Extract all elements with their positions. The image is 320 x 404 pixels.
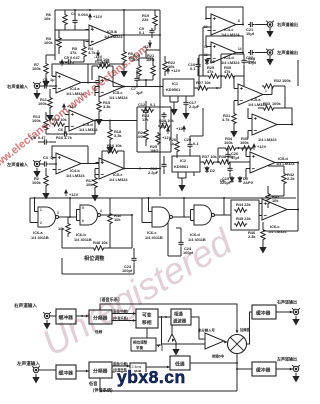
node top bus junctions (74, 9, 76, 11)
op-amp IC4-d (208, 42, 240, 63)
svg-text:100k: 100k (38, 101, 47, 106)
svg-text:1: 1 (40, 208, 42, 212)
svg-text:缓冲器: 缓冲器 (59, 370, 74, 377)
wire opamp5-6 (88, 164, 99, 177)
ground (43, 190, 49, 199)
ground (34, 90, 40, 99)
svg-text:1μF: 1μF (136, 90, 144, 95)
wire (76, 315, 89, 317)
svg-text:右声道输出: 右声道输出 (276, 299, 297, 305)
wire nand3 in (142, 198, 149, 223)
svg-text:2.3k: 2.3k (248, 234, 256, 239)
capacitor C13 (161, 112, 166, 119)
wire divider top to mixer column (100, 304, 237, 332)
resistor R25 (156, 132, 160, 145)
ground (231, 128, 237, 137)
svg-text:右声道输入: 右声道输入 (14, 302, 37, 309)
resistor R10 feedback (96, 64, 109, 68)
box bandpass (171, 309, 191, 325)
svg-text:低音: 低音 (88, 380, 98, 387)
box buffer L (56, 365, 76, 379)
resistor R22 (163, 60, 167, 73)
svg-text:+12V: +12V (67, 104, 77, 109)
resistor R46 (261, 228, 265, 241)
wire left rail (54, 10, 56, 60)
svg-text:100k: 100k (224, 140, 233, 145)
box delay (130, 363, 146, 375)
resistor R15 (97, 100, 101, 113)
resistor R38 (218, 160, 231, 164)
svg-text:47μf: 47μf (248, 60, 257, 65)
svg-text:右声道输出: 右声道输出 (277, 21, 298, 28)
resistor R6 (63, 13, 67, 26)
svg-text:语音(中频): 语音(中频) (113, 309, 128, 314)
wire nand1-2 (62, 198, 81, 221)
ground (260, 244, 266, 253)
box buffer out L (252, 362, 276, 376)
svg-text:1/4 LM324: 1/4 LM324 (276, 161, 295, 166)
wire opamp6 out (124, 168, 160, 170)
op-amp IC5-d2 (247, 152, 279, 173)
svg-text:1/4 4011B: 1/4 4011B (74, 237, 92, 242)
wire feedback IC4-d (206, 36, 243, 53)
wire (76, 370, 89, 372)
svg-text:C20: C20 (184, 137, 191, 142)
svg-text:缓冲器: 缓冲器 (256, 367, 271, 374)
svg-text:3: 3 (91, 26, 93, 30)
svg-text:1/4 4011B: 1/4 4011B (188, 237, 206, 242)
op-amp IC5-b (249, 114, 281, 135)
svg-text:KD9561: KD9561 (174, 164, 189, 169)
wire (158, 316, 171, 318)
box variable phase (136, 309, 158, 328)
wire right bus (268, 60, 298, 231)
wire nand3-4 (176, 198, 195, 221)
box R44 R45 (231, 200, 259, 230)
resistor R2 (44, 174, 48, 187)
resistor R7 (44, 62, 48, 75)
svg-text:1/4 LM324: 1/4 LM324 (109, 95, 128, 100)
power +12V (63, 104, 66, 110)
resistor R24 (144, 128, 148, 141)
power +12V (167, 128, 170, 134)
box buffer R (56, 309, 76, 324)
svg-text:10μf: 10μf (246, 31, 255, 36)
svg-text:缓冲器: 缓冲器 (59, 314, 74, 321)
IC2 box KD9561 (172, 156, 200, 172)
mixer (228, 335, 247, 354)
diode D1 (205, 58, 209, 65)
svg-text:10k: 10k (114, 217, 121, 222)
wire opamp3 out (124, 86, 160, 88)
capacitor C17 (183, 100, 188, 107)
diode D6 (230, 176, 234, 183)
svg-text:2AP9: 2AP9 (243, 180, 254, 185)
resistor R5 (82, 45, 86, 58)
svg-text:相位调整: 相位调整 (133, 340, 148, 345)
op-amp IC2-a (96, 76, 128, 97)
resistor R3 (57, 36, 61, 49)
wire divider L bottom feedback (100, 378, 237, 391)
ground (33, 374, 39, 383)
ground (107, 144, 113, 153)
svg-text:1/4 LM324: 1/4 LM324 (79, 127, 98, 132)
svg-text:可变: 可变 (142, 312, 152, 319)
capacitor C20 (187, 142, 192, 149)
svg-text:移相: 移相 (142, 319, 152, 326)
svg-text:相通: 相通 (174, 311, 183, 318)
resistor R34 (224, 146, 237, 150)
svg-text:分频器: 分频器 (93, 315, 108, 322)
wire branch down to summing (162, 317, 206, 344)
wire row3 (190, 108, 250, 162)
capacitor C21 (248, 22, 255, 27)
capacitor C24 (178, 240, 183, 247)
svg-text:R32: R32 (274, 78, 282, 83)
power -12V (97, 50, 100, 56)
nand IC3-a (35, 207, 63, 227)
op-amp IC1-a (53, 72, 85, 93)
svg-text:右声道输入: 右声道输入 (7, 83, 29, 90)
op-amp IC1-1 (86, 25, 118, 46)
svg-text:1/4 LM324: 1/4 LM324 (66, 91, 85, 96)
jack bd input R (43, 312, 51, 319)
svg-text:KD9561: KD9561 (166, 87, 181, 92)
wire feedback opamp2 (52, 64, 88, 83)
svg-text:1/4 LM324: 1/4 LM324 (66, 173, 85, 178)
wire feedback IC4-c (206, 7, 243, 25)
svg-text:100k: 100k (32, 66, 41, 71)
svg-text:47μf: 47μf (231, 155, 240, 160)
svg-text:分频器: 分频器 (93, 368, 108, 375)
svg-text:0.094: 0.094 (78, 12, 89, 17)
capacitor C8 (42, 139, 49, 144)
resistor R19 (153, 14, 157, 27)
capacitor C16 (161, 162, 166, 169)
wire opamp1 out (114, 10, 160, 35)
svg-text:2.2μF: 2.2μF (148, 170, 159, 175)
box divider L (89, 362, 112, 378)
svg-text:R14 10k: R14 10k (52, 117, 68, 122)
ground (293, 373, 299, 382)
capacitor C18 (241, 58, 246, 65)
power +12V (167, 68, 170, 74)
svg-text:0.1: 0.1 (139, 30, 145, 35)
wire arrows to phase box (112, 314, 136, 321)
capacitor C6 (62, 131, 69, 136)
svg-text:3.3k: 3.3k (114, 133, 122, 138)
svg-text:100k: 100k (32, 180, 41, 185)
power +12V (183, 126, 186, 132)
wire opamp2-3 (88, 83, 99, 97)
resistor R16 (106, 149, 119, 153)
wire IC5a (234, 76, 272, 113)
svg-text:22k: 22k (142, 17, 149, 22)
svg-text:左声道输入: 左声道输入 (16, 360, 40, 367)
svg-text:0.1: 0.1 (190, 66, 196, 71)
svg-text:缓冲器: 缓冲器 (256, 310, 271, 317)
svg-text:相位调整: 相位调整 (84, 255, 105, 262)
resistor R13 (44, 118, 48, 131)
jack output L (266, 49, 274, 56)
nand IC3-b (77, 205, 105, 225)
svg-text:-12V: -12V (143, 44, 152, 49)
wire (39, 369, 56, 371)
wire (146, 366, 170, 368)
svg-text:C1: C1 (43, 77, 49, 82)
svg-text:R12 10k: R12 10k (95, 59, 111, 64)
svg-text:C3: C3 (43, 155, 49, 160)
ground (44, 320, 50, 329)
wire arrows to delay (112, 366, 130, 372)
wire (50, 315, 56, 317)
svg-text:1: 1 (115, 30, 117, 34)
svg-text:C8: C8 (31, 135, 37, 140)
svg-text:2: 2 (91, 40, 93, 44)
wire right link (263, 230, 298, 232)
box buffer out R (252, 305, 276, 319)
svg-text:C12: C12 (138, 102, 146, 107)
svg-text:100pf: 100pf (183, 250, 194, 255)
resistor R45 (234, 222, 247, 226)
svg-text:C4: C4 (71, 11, 77, 16)
wire phase box (62, 228, 134, 274)
svg-text:IC1: IC1 (172, 81, 179, 86)
capacitor C1 (42, 83, 49, 88)
ground (121, 68, 127, 77)
svg-text:IC2: IC2 (180, 158, 187, 163)
svg-text:D6: D6 (220, 178, 226, 183)
power +12V (253, 144, 256, 150)
wire IC5c (259, 204, 298, 216)
svg-text:滤波器: 滤波器 (173, 318, 187, 325)
summing amp (205, 333, 224, 349)
resistor R48 (92, 246, 105, 250)
svg-text:2: 2 (40, 221, 42, 225)
op-amp IC5-a (235, 84, 267, 105)
svg-text:6: 6 (82, 219, 84, 223)
svg-text:低频: 低频 (94, 329, 103, 334)
svg-text:1/4 4011B: 1/4 4011B (145, 235, 163, 240)
wire bottom bus (30, 197, 296, 199)
svg-text:+12V: +12V (93, 14, 103, 19)
svg-text:ybx8.cn: ybx8.cn (117, 367, 186, 387)
svg-text:〔语音乐系〕: 〔语音乐系〕 (97, 296, 122, 303)
resistor R30 (223, 74, 236, 78)
resistor R27 (196, 86, 209, 90)
wire opamp1 input (55, 30, 89, 40)
resistor R8 (98, 62, 111, 66)
power -12V (149, 40, 152, 46)
wire mixer to buffers (247, 312, 253, 344)
wire (224, 341, 228, 343)
wire IC4 inputs from below (199, 27, 211, 88)
svg-text:R16 4.7k: R16 4.7k (56, 135, 73, 140)
svg-text:1MΩ: 1MΩ (150, 148, 159, 153)
svg-text:10k: 10k (168, 64, 175, 69)
svg-text:+12V: +12V (176, 126, 186, 131)
svg-text:C6: C6 (58, 127, 64, 132)
svg-text:100k: 100k (44, 40, 53, 45)
svg-text:R16 10k: R16 10k (107, 143, 123, 148)
svg-text:4.7k: 4.7k (222, 117, 230, 122)
svg-text:(伴音系统): (伴音系统) (93, 387, 113, 394)
pot arrow (156, 345, 162, 351)
svg-text:100k: 100k (282, 78, 291, 83)
svg-text:左声道输出: 左声道输出 (276, 49, 298, 56)
wire IC5b fb (248, 108, 292, 139)
resistor R33 (262, 106, 275, 110)
svg-text:D1: D1 (210, 59, 216, 64)
svg-text:100k: 100k (32, 118, 41, 123)
svg-text:4: 4 (100, 209, 102, 213)
resistor R18b (108, 128, 112, 141)
svg-text:2.2k: 2.2k (287, 176, 295, 181)
svg-text:(中音乐系): (中音乐系) (113, 316, 128, 321)
svg-text:100k: 100k (272, 101, 281, 106)
capacitor C19 (227, 166, 232, 173)
power +12V (89, 14, 92, 20)
wire bandpass out (191, 317, 205, 339)
svg-text:10k: 10k (272, 198, 279, 203)
resistor R9 (122, 50, 126, 63)
pot below bandpass (168, 325, 176, 346)
svg-text:1/4 4011B: 1/4 4011B (31, 235, 49, 240)
svg-text:平衡: 平衡 (136, 345, 144, 350)
wire module box (137, 107, 171, 152)
svg-text:100k: 100k (240, 140, 249, 145)
capacitor C12 (143, 108, 148, 115)
box phase adjust (131, 338, 156, 351)
jack output R (266, 21, 274, 28)
op-amp IC5-b2 (96, 158, 128, 179)
capacitor C9 (149, 28, 154, 35)
resistor R28 (158, 124, 171, 128)
wire IC5d2 (239, 148, 299, 179)
wire nand2 out (104, 198, 132, 248)
nand IC6-c (149, 207, 177, 227)
svg-text:1: 1 (265, 89, 267, 93)
resistor R31 (232, 112, 236, 125)
resistor R40 (108, 212, 112, 225)
power +12V (65, 190, 68, 196)
resistor R29 (207, 74, 220, 78)
svg-text:1μ: 1μ (50, 77, 55, 82)
ground (34, 168, 40, 177)
resistor R26 (175, 140, 179, 153)
node (145, 79, 147, 81)
wire phase adj link (146, 328, 148, 338)
op-amp IC4-c (208, 14, 240, 35)
resistor R23 (141, 108, 154, 112)
capacitor C5 (66, 59, 73, 64)
resistor R20 (137, 64, 141, 77)
svg-text:未分频入号: 未分频入号 (197, 328, 216, 333)
ground (179, 182, 185, 191)
ground (171, 106, 177, 115)
resistor R17 (93, 176, 97, 189)
svg-text:3.3k: 3.3k (103, 104, 111, 109)
jack input R (33, 82, 41, 89)
capacitor C26 (225, 152, 230, 159)
svg-text:1/4 LM324: 1/4 LM324 (258, 137, 277, 142)
wire feedback opamp5 (52, 146, 88, 164)
diode D2 (205, 166, 209, 173)
svg-text:2.2μF: 2.2μF (189, 104, 200, 109)
resistor R43 (266, 192, 270, 205)
svg-text:1800: 1800 (131, 57, 140, 62)
svg-text:射随0中: 射随0中 (211, 354, 225, 359)
resistor R14 (52, 122, 65, 126)
box lowpass (170, 356, 190, 370)
capacitor C10 (195, 62, 200, 69)
power +12V (61, 60, 64, 66)
svg-text:3: 3 (57, 211, 59, 215)
svg-text:1/4 LM324: 1/4 LM324 (109, 177, 128, 182)
svg-text:R28 10k: R28 10k (159, 118, 175, 123)
ground (173, 346, 179, 355)
resistor R1 (48, 96, 52, 109)
capacitor C22 (248, 50, 255, 55)
wire to opamp2 (55, 77, 57, 89)
resistor R37 (202, 160, 215, 164)
ground (96, 116, 102, 125)
IC7 box KD9561 (163, 79, 194, 96)
ground (267, 28, 273, 37)
resistor R41 (66, 222, 70, 235)
resistor R32 (262, 84, 275, 88)
svg-text:语音(中频): 语音(中频) (113, 361, 128, 366)
capacitor C2 (42, 161, 49, 166)
svg-text:8: 8 (238, 19, 240, 23)
svg-text:R45 22k: R45 22k (236, 216, 252, 221)
ground (267, 56, 273, 65)
resistor R21 (151, 64, 155, 77)
jack bd input L (32, 366, 40, 373)
resistor R44 (234, 208, 247, 212)
resistor R42 (282, 172, 286, 185)
wire opamp4 (46, 115, 137, 135)
wire mid bus (159, 10, 161, 196)
svg-text:47k: 47k (207, 69, 214, 74)
capacitor C7 (134, 76, 139, 83)
svg-text:47k: 47k (224, 69, 231, 74)
op-amp IC5-d (66, 110, 98, 131)
svg-text:+12V: +12V (257, 144, 267, 149)
wire nand4 out (168, 198, 231, 256)
jack bd out R (292, 308, 300, 315)
ground (293, 316, 299, 325)
wire (276, 368, 293, 370)
ground (47, 112, 53, 121)
jack input L (33, 160, 41, 167)
op-amp IC5-c (259, 199, 291, 220)
svg-text:100k: 100k (136, 134, 145, 139)
svg-text:R37 10k: R37 10k (202, 154, 218, 159)
svg-text:左声道输出: 左声道输出 (276, 356, 297, 362)
svg-text:10k: 10k (86, 182, 93, 187)
ground (92, 192, 98, 201)
nand IC6-d (191, 205, 219, 225)
svg-text:100pf: 100pf (122, 268, 133, 273)
svg-text:R44 22k: R44 22k (236, 202, 252, 207)
svg-text:0.1: 0.1 (193, 141, 199, 146)
svg-text:左声道输入: 左声道输入 (6, 161, 29, 168)
resistor R35 (240, 146, 253, 150)
capacitor C4 (72, 18, 77, 25)
svg-text:D2: D2 (210, 168, 216, 173)
svg-text:+12V: +12V (69, 192, 79, 197)
